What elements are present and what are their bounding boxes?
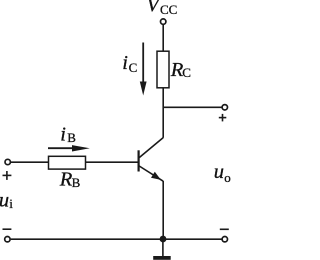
plus sign input [3, 171, 12, 180]
input terminal plus [5, 159, 10, 164]
current arrow iC [140, 43, 147, 96]
svg-text:o: o [224, 170, 231, 185]
ground [153, 242, 171, 260]
wire RB to base [86, 161, 138, 163]
emitter wire [162, 181, 164, 239]
label iB [60, 124, 76, 146]
wire VCC to RC [162, 25, 164, 51]
resistor RC [157, 51, 169, 88]
svg-text:i: i [9, 196, 13, 211]
wire RC to collector [162, 88, 164, 138]
minus sign output [220, 228, 229, 230]
svg-text:C: C [129, 60, 138, 75]
wire input to RB [11, 161, 49, 163]
label RB [59, 169, 81, 191]
label uo [214, 161, 231, 185]
minus sign input [3, 228, 12, 230]
terminal VCC [161, 19, 166, 24]
svg-text:i: i [60, 124, 66, 146]
label iC [122, 52, 137, 75]
label VCC [147, 0, 178, 17]
wire collector node to output [163, 106, 222, 108]
junction dot [160, 236, 167, 243]
transistor Q [139, 138, 164, 182]
output terminal plus [222, 105, 227, 110]
svg-text:u: u [0, 190, 9, 212]
input terminal minus [5, 237, 10, 242]
svg-text:CC: CC [160, 2, 177, 17]
label RC [170, 59, 191, 81]
output terminal minus [222, 237, 227, 242]
svg-text:i: i [122, 52, 128, 74]
svg-text:u: u [214, 161, 224, 183]
label ui [0, 190, 13, 212]
current arrow iB [48, 145, 90, 151]
svg-text:C: C [182, 65, 191, 80]
svg-text:B: B [72, 175, 81, 190]
bottom wire [11, 238, 222, 240]
plus sign output [219, 114, 227, 122]
svg-text:B: B [67, 130, 76, 145]
resistor RB [49, 156, 86, 169]
